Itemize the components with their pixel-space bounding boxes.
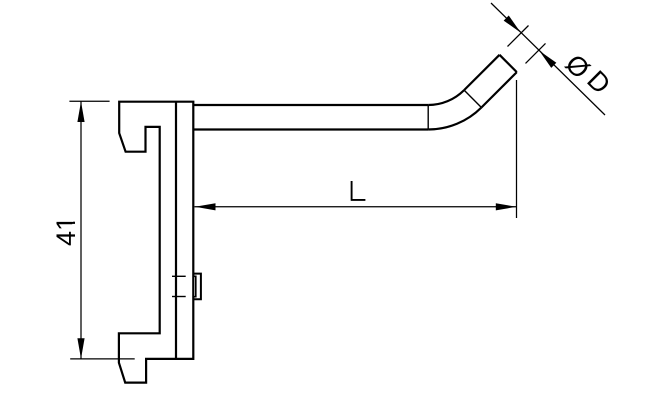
dimension 41 top extension line (69, 100, 109, 102)
dimension L line (195, 206, 517, 208)
clip detail outer (193, 274, 201, 300)
dimension 41 arrow top (77, 102, 84, 123)
bend outer arc (428, 108, 481, 130)
dimension 41 line (80, 101, 82, 359)
bend start tangent line (427, 105, 429, 130)
plate break line lower (172, 296, 186, 298)
bracket front plate inner edge (175, 102, 177, 359)
dimension OD extension tick lower (526, 43, 546, 63)
white patch hiding "1" foot serif (bottom) (72, 224, 76, 229)
dimension L right extension line (516, 80, 518, 218)
dimension L arrow right (496, 203, 517, 210)
bend end tangent line (464, 90, 481, 107)
dimension OD arrow lower (539, 51, 556, 68)
dimension L arrow left (195, 203, 216, 210)
bracket rail profile (119, 102, 193, 383)
bend inner arc (428, 90, 464, 105)
svg-text:41: 41 (51, 216, 81, 246)
tube tip lower edge (481, 72, 516, 107)
dimension OD arrow upper (504, 16, 521, 33)
white patch hiding "1" foot serif (top) (72, 216, 76, 222)
dimension OD extension tick upper (508, 26, 529, 47)
dimension L label (351, 181, 366, 200)
tube arm top edge (193, 104, 428, 106)
clip detail inner (193, 276, 196, 296)
dimension 41 bottom extension line (70, 358, 135, 360)
plate break line upper (172, 275, 186, 277)
dimension 41 arrow bottom (77, 338, 84, 359)
tube tip upper edge (464, 55, 499, 90)
tube arm bottom edge (193, 128, 428, 130)
tube tip end face (500, 55, 517, 72)
dimension OD line (491, 3, 605, 115)
